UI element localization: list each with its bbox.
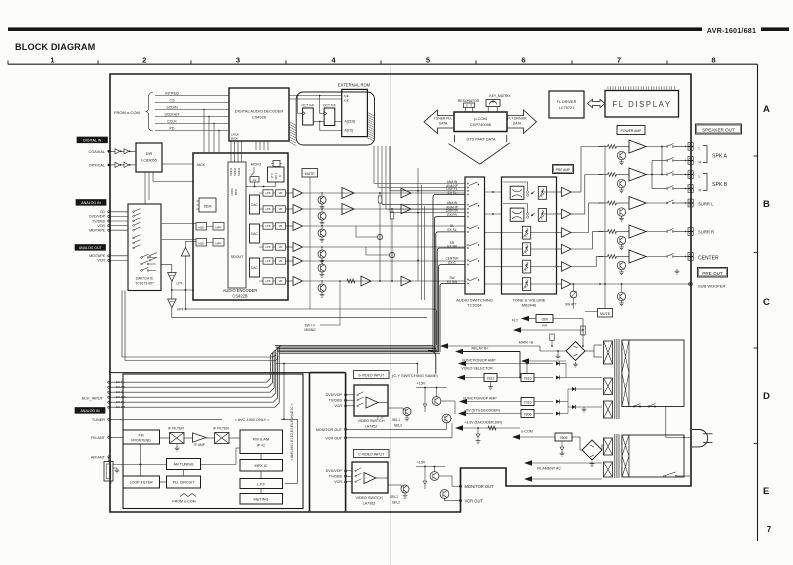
svg-text:6: 6 bbox=[521, 55, 525, 64]
wires pre-amp to power amp bbox=[571, 191, 581, 193]
page top rule bar bbox=[8, 27, 702, 31]
svg-text:DVD/VDP: DVD/VDP bbox=[89, 215, 106, 219]
svg-text:SPK B: SPK B bbox=[712, 182, 728, 188]
svg-text:DVD/VDP: DVD/VDP bbox=[326, 393, 343, 397]
svg-text:VR: VR bbox=[279, 207, 283, 211]
sw mixing resistor R2 bbox=[391, 208, 393, 210]
ROM address bus hatching bbox=[290, 122, 297, 126]
svg-text:TC9164: TC9164 bbox=[467, 303, 482, 308]
svg-text:LPF: LPF bbox=[266, 191, 271, 195]
svg-text:VIDEO SELECTOR: VIDEO SELECTOR bbox=[461, 367, 493, 371]
ceramic filter F1 bbox=[170, 433, 185, 444]
svg-text:4: 4 bbox=[331, 55, 336, 64]
AC plug P1 bbox=[692, 430, 708, 447]
label box C-VIDEO INPUT bbox=[354, 450, 390, 458]
svg-text:VCR OUT: VCR OUT bbox=[465, 499, 484, 504]
tuner output riser bbox=[283, 364, 285, 420]
svg-text:A[15:8]: A[15:8] bbox=[345, 120, 356, 124]
svg-text:MONITOR OUT: MONITOR OUT bbox=[465, 484, 495, 489]
wire FF2 to A15:8 bbox=[335, 120, 342, 122]
s-video driver Q1 bbox=[403, 408, 411, 416]
svg-text:SURR R: SURR R bbox=[698, 230, 714, 235]
svg-text:L.P.F: L.P.F bbox=[257, 483, 266, 487]
video section duct right border bbox=[345, 373, 347, 512]
transformer T1 primary section lower bbox=[622, 435, 684, 477]
svg-text:LPF: LPF bbox=[266, 259, 271, 263]
svg-text:SDOUT: SDOUT bbox=[231, 255, 244, 259]
svg-text:VCR: VCR bbox=[97, 224, 105, 228]
supply arrow aux bbox=[521, 358, 529, 364]
svg-text:ADD: ADD bbox=[198, 242, 205, 246]
wire 7812 7815 bbox=[497, 377, 521, 379]
svg-text:SUB WOOFER: SUB WOOFER bbox=[698, 284, 725, 289]
regulator -30V box bbox=[536, 315, 553, 323]
regulator U15 7806 bbox=[521, 410, 534, 418]
svg-text:VIDEO SWITCH: VIDEO SWITCH bbox=[357, 419, 384, 423]
label box ANALOG IN tuner bbox=[75, 408, 105, 414]
label box POWER AMP bbox=[617, 126, 645, 135]
svg-text:L: L bbox=[699, 175, 701, 179]
svg-text:(C,Y SWITCHING SAME): (C,Y SWITCHING SAME) bbox=[392, 373, 438, 378]
video section duct top border bbox=[310, 372, 346, 374]
svg-text:SDIN3: SDIN3 bbox=[237, 167, 241, 176]
svg-text:OCT F/F: OCT F/F bbox=[323, 103, 336, 107]
svg-text:VCR: VCR bbox=[97, 259, 105, 263]
svg-text:2: 2 bbox=[142, 55, 146, 64]
digital receiver U5 DIR LC89055 bbox=[136, 143, 162, 172]
wire selector to encoder ADD1 bbox=[162, 223, 196, 225]
clock distribution wire bbox=[246, 186, 276, 188]
thermal protector contacts bbox=[633, 406, 635, 408]
svg-text:PLL CIRCUIT: PLL CIRCUIT bbox=[173, 481, 196, 485]
svg-text:LPF: LPF bbox=[177, 282, 183, 286]
fm if chain wires bbox=[160, 437, 170, 439]
svg-text:BICK: BICK bbox=[231, 136, 238, 140]
wire LPF out bbox=[171, 281, 173, 299]
svg-text:+5V (DTS DECODER): +5V (DTS DECODER) bbox=[464, 409, 500, 413]
DSP main wires bbox=[390, 190, 465, 192]
svg-text:CENTER: CENTER bbox=[698, 256, 719, 262]
svg-text:7812: 7812 bbox=[487, 377, 495, 381]
svg-text:SW ATT: SW ATT bbox=[565, 303, 577, 307]
sw mixing resistor R1 bbox=[379, 192, 381, 194]
svg-text:3: 3 bbox=[236, 55, 240, 64]
svg-text:OCT F/F: OCT F/F bbox=[302, 103, 315, 107]
supply arrow +5V bbox=[458, 411, 466, 417]
svg-text:A: A bbox=[763, 104, 770, 115]
supply arrow op amp minus bbox=[459, 399, 467, 405]
bottom section divider bbox=[109, 372, 310, 374]
svg-text:CD: CD bbox=[100, 210, 106, 214]
label box SPEAKER OUT bbox=[696, 124, 742, 134]
svg-text:FM ANT: FM ANT bbox=[91, 436, 106, 440]
wire drops from control signals to encoder bbox=[203, 110, 205, 153]
svg-text:VCR: VCR bbox=[334, 404, 342, 408]
svg-text:L: L bbox=[699, 147, 701, 151]
svg-text:MCK: MCK bbox=[197, 163, 206, 167]
svg-text:SCDIN: SCDIN bbox=[166, 105, 178, 109]
svg-text:MCKO: MCKO bbox=[251, 162, 262, 166]
external ROM bus ribbon bbox=[296, 92, 374, 145]
low pass filter LPF bbox=[168, 273, 177, 282]
octal flip-flop U3 OCT F/F bbox=[324, 108, 335, 126]
c-video emitter followers Q5 Q6 bbox=[430, 472, 439, 481]
bundle corner joins bbox=[272, 353, 278, 361]
filter block HPF2 bbox=[213, 239, 224, 247]
video feed drop 2 bbox=[416, 364, 418, 374]
svg-text:MONITOR OUT: MONITOR OUT bbox=[316, 428, 343, 432]
svg-text:VR: VR bbox=[279, 259, 283, 263]
svg-text:S-VIDEO INPUT: S-VIDEO INPUT bbox=[358, 374, 385, 378]
svg-text:PRE AMP: PRE AMP bbox=[556, 168, 571, 172]
wire DIR to encoder MCK bbox=[162, 163, 193, 165]
svg-text:LC89055: LC89055 bbox=[141, 158, 157, 163]
svg-text:FUNCTION/OP AMP: FUNCTION/OP AMP bbox=[463, 397, 497, 401]
svg-text:LA7952: LA7952 bbox=[363, 501, 376, 505]
svg-text:M62446: M62446 bbox=[522, 303, 537, 308]
power amplifier stages bbox=[629, 140, 646, 153]
svg-text:MAIN +B: MAIN +B bbox=[519, 341, 534, 345]
video feed drop from mixing band bbox=[428, 351, 436, 374]
wire loop filter pll bbox=[160, 481, 167, 483]
pll circuit block bbox=[167, 476, 201, 488]
svg-text:MUTE: MUTE bbox=[305, 172, 316, 176]
wire am tuning to if ic bbox=[201, 464, 237, 466]
6ch external input bundle horizontals bbox=[275, 345, 433, 347]
svg-text:SL: SL bbox=[450, 224, 454, 228]
svg-text:DAC: DAC bbox=[251, 203, 258, 207]
svg-text:DATA: DATA bbox=[439, 122, 448, 126]
svg-text:ANALOG IN: ANALOG IN bbox=[80, 409, 100, 413]
sw pre amp bbox=[347, 279, 355, 283]
svg-text:VCR OUT: VCR OUT bbox=[325, 436, 342, 440]
supply arrow u-COM bbox=[512, 434, 520, 440]
scan fold artifact bbox=[390, 66, 392, 565]
post-DAC LPF and VR blocks bbox=[263, 190, 273, 196]
digital audio decoder U1 CS4926 bbox=[229, 88, 289, 141]
video switch U18 LA7952 c-video bbox=[352, 462, 388, 493]
supply arrow function op amp bbox=[458, 361, 466, 367]
s-video emitter followers Q2 Q3 bbox=[432, 397, 441, 406]
svg-text:1/2: 1/2 bbox=[253, 178, 257, 182]
svg-text:AVR-1601/681: AVR-1601/681 bbox=[707, 26, 756, 35]
svg-text:HPF: HPF bbox=[177, 308, 184, 312]
wire selector to encoder ADD2 bbox=[162, 239, 196, 241]
transformer T1 primary section upper bbox=[622, 340, 684, 407]
svg-text:7: 7 bbox=[767, 525, 772, 534]
crystal X1 bbox=[273, 161, 280, 167]
svg-text:OPTICAL: OPTICAL bbox=[89, 163, 105, 167]
divider block bbox=[250, 177, 259, 183]
muting block bbox=[240, 494, 283, 505]
svg-text:TV/DBS: TV/DBS bbox=[329, 475, 343, 479]
svg-text:BICK: BICK bbox=[234, 189, 238, 196]
svg-text:FLT DRIVER: FLT DRIVER bbox=[508, 117, 528, 121]
svg-text:DAC: DAC bbox=[251, 266, 258, 270]
svg-text:POWER AMP: POWER AMP bbox=[621, 129, 643, 133]
svg-text:RESONATOR: RESONATOR bbox=[458, 99, 480, 103]
wire -30V feed bbox=[553, 318, 583, 320]
svg-text:7915: 7915 bbox=[524, 401, 532, 405]
svg-text:LPF: LPF bbox=[266, 207, 271, 211]
lpf block bbox=[240, 479, 283, 489]
svg-text:C-VIDEO INPUT: C-VIDEO INPUT bbox=[358, 453, 385, 457]
svg-text:VR: VR bbox=[279, 245, 283, 249]
am loop antenna bbox=[104, 462, 113, 482]
svg-text:6CH_INPUT: 6CH_INPUT bbox=[82, 396, 104, 400]
6ch external input bundle risers bbox=[433, 195, 465, 353]
svg-text:AM TUNING: AM TUNING bbox=[173, 463, 193, 467]
svg-text:< AVR-1601 E1,E2,E3,EX,E1H,LE1: < AVR-1601 E1,E2,E3,EX,E1H,LE1C > bbox=[290, 403, 294, 460]
svg-text:FL DRIVER: FL DRIVER bbox=[557, 100, 577, 104]
power amp rail bbox=[604, 145, 606, 309]
c-video driver Q4 bbox=[401, 485, 409, 493]
coax/optical buffer stages bbox=[108, 150, 111, 153]
second stage amp FL bbox=[401, 188, 411, 198]
sub return amp bbox=[181, 247, 190, 256]
svg-text:EXTERNAL ROM: EXTERNAL ROM bbox=[338, 83, 371, 88]
regulator U16 7805 bbox=[555, 433, 572, 441]
regulator U12 7812 bbox=[484, 374, 497, 382]
svg-text:5: 5 bbox=[426, 55, 431, 64]
svg-text:FROM u-COM: FROM u-COM bbox=[114, 110, 140, 115]
wire CS4926 /CE /OE to ROM bbox=[289, 95, 342, 97]
svg-text:-30V: -30V bbox=[541, 318, 549, 322]
tuning voltage wire bbox=[140, 444, 142, 476]
dsp feed vertical bbox=[417, 168, 419, 281]
svg-text:DATA: DATA bbox=[513, 122, 522, 126]
svg-text:SURR L: SURR L bbox=[698, 202, 714, 207]
svg-text:MIXING: MIXING bbox=[304, 328, 316, 332]
svg-text:VR: VR bbox=[279, 191, 283, 195]
svg-text:SEL1: SEL1 bbox=[390, 495, 398, 499]
wire selector to LPF bbox=[161, 264, 172, 266]
svg-text:LPF: LPF bbox=[266, 224, 271, 228]
svg-text:ANALOG IN: ANALOG IN bbox=[81, 201, 101, 205]
svg-text:C: C bbox=[763, 297, 770, 308]
bidirectional arrow bbox=[588, 99, 606, 107]
svg-text:DEM: DEM bbox=[204, 205, 212, 209]
label box DIGITAL IN bbox=[77, 137, 108, 143]
speaker output terminals bbox=[688, 143, 693, 147]
svg-text:VR: VR bbox=[279, 279, 283, 283]
svg-text:FL DISPLAY: FL DISPLAY bbox=[612, 100, 671, 109]
page top rule bar right segment bbox=[761, 27, 789, 31]
svg-text:DIR: DIR bbox=[146, 151, 153, 156]
svg-text:ADD: ADD bbox=[198, 226, 205, 230]
svg-text:BLOCK DIAGRAM: BLOCK DIAGRAM bbox=[15, 42, 96, 52]
top ruler line bbox=[8, 63, 758, 65]
svg-text:7815: 7815 bbox=[524, 377, 532, 381]
svg-text:FM & AM: FM & AM bbox=[253, 437, 269, 442]
tuner audio out bbox=[285, 482, 298, 484]
if amp IF AMP bbox=[193, 433, 206, 442]
DSP reference wires to switching bbox=[373, 146, 375, 184]
label box S-VIDEO INPUT bbox=[354, 371, 390, 379]
pre-amp buffer amps bbox=[562, 187, 572, 197]
u-COM signal brace bbox=[146, 93, 154, 132]
arrow DTS PART DATA bbox=[453, 135, 455, 142]
svg-text:MD/TAPE: MD/TAPE bbox=[89, 254, 105, 258]
svg-text:AUDIO ENCODER: AUDIO ENCODER bbox=[223, 288, 258, 293]
svg-text:TUNER: TUNER bbox=[92, 418, 105, 422]
wire 7815 out bbox=[534, 377, 553, 379]
svg-text:IF FILTER: IF FILTER bbox=[168, 426, 184, 430]
loop filter block bbox=[123, 476, 160, 488]
top ruler tick marks bbox=[7, 60, 9, 64]
wire sub mix to mute bbox=[186, 308, 434, 310]
input selector U6 SWITCH IC TC9173-007 bbox=[128, 204, 161, 291]
adder block ADD2 bbox=[196, 239, 207, 247]
svg-text:SCDOUT: SCDOUT bbox=[164, 112, 180, 116]
svg-text:IF IC: IF IC bbox=[257, 443, 266, 448]
svg-text:MUTING: MUTING bbox=[254, 498, 269, 502]
svg-text:LC75721: LC75721 bbox=[559, 106, 574, 110]
svg-text:7806: 7806 bbox=[524, 413, 532, 417]
svg-text:B: B bbox=[763, 199, 770, 210]
svg-text:HPF: HPF bbox=[216, 226, 222, 230]
svg-text:MPX IC: MPX IC bbox=[254, 464, 267, 468]
svg-text:SEL2: SEL2 bbox=[392, 500, 400, 504]
octal flip-flop U2 OCT F/F bbox=[303, 108, 314, 125]
tuner chain verticals bbox=[260, 454, 262, 460]
svg-text:XI: XI bbox=[279, 175, 282, 178]
mute control MUTE box bbox=[302, 169, 318, 178]
label box ANALOG IN bbox=[76, 200, 106, 206]
7805 protection bbox=[561, 441, 563, 447]
svg-text:R: R bbox=[699, 161, 702, 165]
svg-text:VCR: VCR bbox=[334, 480, 342, 484]
svg-text:DIGITAL IN: DIGITAL IN bbox=[83, 139, 102, 143]
svg-text:FILAMENT AC: FILAMENT AC bbox=[537, 467, 561, 471]
svg-text:CS422B: CS422B bbox=[232, 294, 248, 299]
svg-text:VIDEO SWITCH: VIDEO SWITCH bbox=[355, 496, 382, 500]
svg-text:E: E bbox=[763, 486, 769, 497]
mixing node M1 bbox=[377, 234, 382, 239]
svg-text:+15V: +15V bbox=[417, 461, 426, 465]
video switch U17 LA7952 s-video bbox=[354, 385, 388, 416]
svg-text:PRE OUT: PRE OUT bbox=[702, 271, 723, 276]
svg-text:D: D bbox=[763, 391, 770, 402]
svg-text:LPF: LPF bbox=[266, 245, 271, 249]
svg-text:FROM u-COM: FROM u-COM bbox=[172, 500, 195, 504]
sub attenuator SW ATT bbox=[570, 291, 577, 298]
svg-text:/OE: /OE bbox=[344, 98, 349, 102]
tone and volume U9 M62446 bbox=[502, 177, 557, 294]
svg-text:CS: CS bbox=[170, 98, 176, 102]
power switch S2 bbox=[664, 475, 666, 477]
main B filter bbox=[551, 341, 553, 347]
encoder output buffer amps bbox=[293, 189, 303, 198]
mute relay MUTE box bbox=[598, 309, 613, 318]
svg-text:PD: PD bbox=[170, 126, 175, 130]
svg-text:ANALOG OUT: ANALOG OUT bbox=[79, 246, 103, 250]
main diagram border bbox=[110, 74, 691, 512]
svg-text:DIGITAL AUDIO DECODER: DIGITAL AUDIO DECODER bbox=[235, 109, 284, 114]
fl driver U11 LC75721 bbox=[549, 91, 584, 118]
fl display pins bbox=[607, 86, 609, 90]
mpx ic block bbox=[240, 460, 283, 472]
svg-text:FM: FM bbox=[138, 433, 143, 437]
svg-text:CS4926: CS4926 bbox=[252, 115, 266, 120]
filament ac wires bbox=[524, 460, 532, 466]
c-video monitor out terminal bbox=[459, 485, 461, 487]
svg-text:+15V: +15V bbox=[417, 382, 426, 386]
svg-text:MUTE: MUTE bbox=[600, 312, 611, 316]
svg-text:VR: VR bbox=[279, 224, 283, 228]
audio encoder U7 CS422B bbox=[193, 153, 288, 300]
svg-text:SEL1: SEL1 bbox=[392, 418, 400, 422]
svg-text:DTS PART DATA: DTS PART DATA bbox=[467, 138, 496, 142]
svg-text:A[7:0]: A[7:0] bbox=[345, 129, 354, 133]
tuner output wire with AVC note bbox=[110, 418, 222, 420]
sub woofer line bbox=[571, 283, 690, 285]
svg-text:HPF: HPF bbox=[216, 242, 222, 246]
fm frontend block bbox=[123, 430, 160, 444]
svg-text:FUNCTION/OP AMP: FUNCTION/OP AMP bbox=[462, 359, 496, 363]
svg-text:1: 1 bbox=[50, 55, 55, 64]
mixing node M2 bbox=[389, 252, 394, 257]
svg-text:KEY_MATRIX: KEY_MATRIX bbox=[489, 94, 511, 98]
svg-text:TUNER PLL: TUNER PLL bbox=[434, 117, 452, 121]
ground 7812 bbox=[490, 382, 492, 385]
svg-text:7805: 7805 bbox=[560, 436, 568, 440]
svg-text:u-COM: u-COM bbox=[521, 430, 533, 434]
regulator U13 7815 bbox=[521, 374, 534, 382]
transformer T1 secondary windings bbox=[604, 341, 613, 364]
second stage amp FR bbox=[401, 204, 411, 214]
label box PRE AMP bbox=[553, 165, 574, 174]
svg-text:RELAY B+: RELAY B+ bbox=[472, 347, 489, 351]
svg-text:8: 8 bbox=[711, 55, 715, 64]
external ROM U4 bbox=[342, 89, 368, 136]
svg-text:TV/DBS: TV/DBS bbox=[92, 219, 106, 223]
label box PRE OUT bbox=[698, 268, 728, 278]
svg-text:LOOP FILTER: LOOP FILTER bbox=[130, 481, 153, 485]
fm am if ic bbox=[240, 430, 283, 454]
speaker relay contacts and output wires bbox=[666, 146, 668, 148]
svg-text:AVR: AVR bbox=[542, 324, 547, 328]
svg-text:DVD/VDP: DVD/VDP bbox=[326, 469, 343, 473]
label box ANALOG OUT bbox=[75, 245, 106, 251]
svg-text:XTD: XTD bbox=[271, 173, 274, 178]
svg-text:IF AMP: IF AMP bbox=[194, 443, 206, 447]
DAC blocks inside CS422B bbox=[250, 195, 260, 214]
svg-text:AM ANT: AM ANT bbox=[91, 455, 106, 459]
c-video vcr out terminal bbox=[459, 500, 461, 502]
second stage amp SW bbox=[401, 276, 411, 286]
secondary diodes bbox=[556, 362, 560, 366]
filter block HPF1 bbox=[213, 223, 224, 231]
FR line amp bbox=[342, 204, 354, 215]
svg-text:7: 7 bbox=[617, 55, 621, 64]
arrow FLT DRIVER DATA bbox=[507, 110, 537, 134]
svg-text:TV/DBS: TV/DBS bbox=[329, 399, 343, 403]
bridge rectifier D2 bbox=[572, 436, 580, 438]
am tuning block bbox=[167, 459, 201, 470]
arrow TUNER PLL DATA bbox=[424, 110, 454, 134]
svg-text:IF FILTER: IF FILTER bbox=[213, 426, 229, 430]
svg-text:+3.3V (ENCODER,DIR): +3.3V (ENCODER,DIR) bbox=[464, 421, 502, 425]
serial input port block bbox=[228, 162, 246, 288]
am signal wire bbox=[113, 464, 167, 466]
svg-text:SPEAKER OUT: SPEAKER OUT bbox=[702, 127, 735, 132]
wire HPF to sub mixing bbox=[171, 308, 173, 318]
power amp bias transistors bbox=[617, 151, 625, 159]
svg-text:R: R bbox=[699, 189, 702, 193]
pre out ground bbox=[675, 269, 680, 274]
bridge rectifier D1 bbox=[566, 342, 585, 361]
